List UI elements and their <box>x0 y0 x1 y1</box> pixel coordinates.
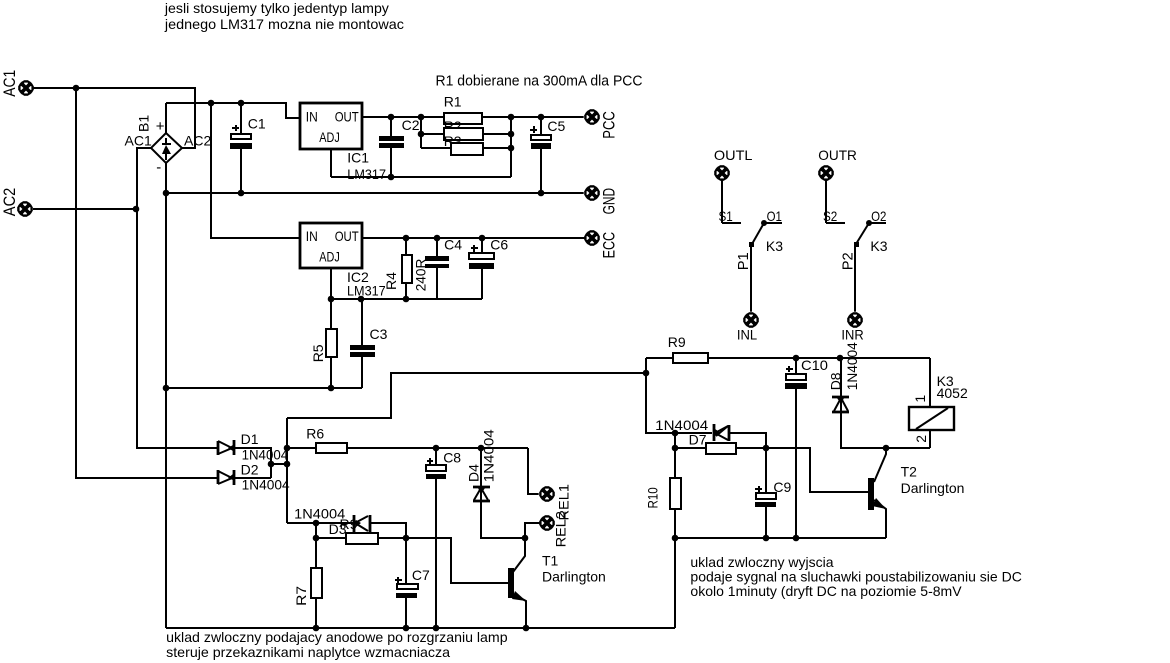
node D7 left <box>672 430 679 437</box>
node C8 top <box>433 445 440 452</box>
resistor R11 <box>675 443 766 454</box>
svg-text:INR: INR <box>841 326 863 342</box>
svg-text:1N4004: 1N4004 <box>481 429 497 482</box>
wire to T2 base <box>766 448 868 492</box>
node top rail IC2 branch <box>208 100 215 107</box>
terminal REL2 <box>539 515 556 532</box>
svg-text:PCC: PCC <box>600 111 618 139</box>
node rail at T1 emitter <box>523 625 530 632</box>
svg-text:R1: R1 <box>444 94 462 110</box>
svg-text:1: 1 <box>912 395 928 403</box>
svg-text:240R: 240R <box>413 259 429 292</box>
svg-text:R9: R9 <box>668 334 686 350</box>
terminal AC1 <box>18 80 35 97</box>
op IC1 LM317 box <box>300 103 386 182</box>
diode D4 1N4004 vertical <box>465 429 525 538</box>
svg-text:B1: B1 <box>135 115 151 132</box>
node minus line at R5 wire <box>163 385 170 392</box>
svg-text:AC2: AC2 <box>1 188 19 217</box>
node AC1 junction <box>73 85 80 92</box>
resistor R10 <box>645 448 682 538</box>
terminal INL <box>743 312 760 329</box>
svg-text:S2: S2 <box>823 208 837 224</box>
wire AC1 down to D2 <box>76 88 218 478</box>
transistor T1 Darlington <box>508 538 606 628</box>
wire IC1 ADJ rail <box>331 149 511 177</box>
resistor R3 <box>421 117 514 177</box>
svg-text:C8: C8 <box>443 449 461 465</box>
node D8 top <box>837 355 844 362</box>
svg-text:O2: O2 <box>871 208 886 224</box>
terminal ECC <box>584 230 601 247</box>
wire bridge left corner down to D1 <box>137 148 218 448</box>
svg-text:ADJ: ADJ <box>319 129 340 145</box>
svg-text:1N4004: 1N4004 <box>242 477 290 493</box>
node ADJ2 left <box>328 296 335 303</box>
svg-text:4052: 4052 <box>937 385 968 401</box>
terminal OUTR <box>818 165 835 182</box>
node T1 collector junction <box>522 535 529 542</box>
svg-text:steruje przekaznikami naplytce: steruje przekaznikami naplytce wzmacniac… <box>166 644 450 660</box>
svg-text:K3: K3 <box>766 238 783 254</box>
svg-text:INL: INL <box>737 326 757 342</box>
wire rail link up to delay2 rail <box>674 538 676 628</box>
svg-text:OUTR: OUTR <box>818 147 857 163</box>
node OUT at C2 <box>388 114 395 121</box>
wire GND rail <box>166 192 585 194</box>
terminal GND <box>584 185 601 202</box>
node delay2 feed <box>643 370 650 377</box>
svg-text:C2: C2 <box>402 117 420 133</box>
node rail2 at C10 <box>793 535 800 542</box>
node C10 top <box>793 355 800 362</box>
wire to T1 base <box>406 538 508 583</box>
node OUT2 at C4 <box>434 235 441 242</box>
wire bottom rail left circuit <box>166 627 675 629</box>
node rail at C7 <box>403 625 410 632</box>
stray glyph stroke <box>716 426 728 436</box>
node ADJ2 at R4 <box>403 296 410 303</box>
node R8 row left <box>313 535 320 542</box>
wire AC2 <box>33 208 136 210</box>
node diode join left <box>268 461 275 468</box>
node R11 right <box>763 445 770 452</box>
bridge rectifier B1 <box>125 115 212 176</box>
svg-text:AC2: AC2 <box>184 132 211 148</box>
node rail at R7 <box>313 625 320 632</box>
wire to REL1 <box>528 448 540 494</box>
resistor R9 <box>646 334 930 363</box>
svg-text:jednego LM317 mozna nie montow: jednego LM317 mozna nie montowac <box>164 16 404 32</box>
switch arm K3 left <box>752 223 764 244</box>
wire R8 row vertical link <box>315 523 317 538</box>
node R5 bottom <box>328 385 335 392</box>
resistor R1 <box>444 94 482 124</box>
capacitor C2 <box>379 117 420 180</box>
wire arm to INL <box>750 247 752 313</box>
diode D7 <box>714 424 729 441</box>
relay K3 4052 <box>909 358 968 448</box>
svg-text:R4: R4 <box>383 272 399 290</box>
terminal REL1 <box>539 486 556 503</box>
node D4 top <box>478 445 485 452</box>
svg-text:AC1: AC1 <box>1 70 19 97</box>
svg-text:R7: R7 <box>293 586 309 606</box>
node ADJ2 at C3 <box>358 296 365 303</box>
wire bridge plus to top rail and IC1 IN <box>166 103 300 133</box>
svg-text:D3: D3 <box>329 521 347 537</box>
svg-text:-: - <box>156 159 161 176</box>
svg-text:S1: S1 <box>719 208 733 224</box>
wire D1 D2 outputs join <box>234 448 287 478</box>
svg-text:Darlington: Darlington <box>542 568 606 584</box>
node GND rail at minus line <box>163 190 170 197</box>
svg-text:OUT: OUT <box>335 228 359 244</box>
terminal PCC <box>584 109 601 126</box>
wire OUTL down <box>722 180 741 223</box>
svg-text:IN: IN <box>306 228 318 244</box>
svg-text:jesli stosujemy tylko jedentyp: jesli stosujemy tylko jedentyp lampy <box>164 0 389 16</box>
resistor R8 <box>316 533 406 544</box>
wire bottom rail delay2 <box>675 537 886 539</box>
wire IC2 OUT row to ECC <box>362 237 585 239</box>
capacitor C7 <box>395 538 430 628</box>
svg-text:R6: R6 <box>306 425 324 441</box>
wire OUTR down <box>826 180 845 223</box>
svg-text:1N4004: 1N4004 <box>294 505 345 521</box>
wire main left vertical <box>286 418 288 523</box>
svg-text:LM317: LM317 <box>347 166 386 182</box>
svg-text:IN: IN <box>306 108 318 124</box>
svg-text:C1: C1 <box>248 115 266 131</box>
svg-text:+: + <box>156 118 165 135</box>
svg-text:LM317: LM317 <box>347 282 386 298</box>
node OUT at R bank left <box>418 114 425 121</box>
wire bridge minus down left side <box>165 163 167 628</box>
node diode join right <box>284 461 291 468</box>
svg-text:K3: K3 <box>870 238 887 254</box>
wire IC1 OUT row <box>362 116 585 118</box>
terminal OUTL <box>714 165 731 182</box>
node AC2 junction <box>133 206 140 213</box>
resistor R4 240R <box>383 238 428 299</box>
diode D2 1N4004 <box>218 461 290 492</box>
node OUT2 at R4 <box>403 235 410 242</box>
node OUT2 at C6 <box>479 235 486 242</box>
svg-text:T2: T2 <box>901 463 918 479</box>
node OUT at R bank right <box>508 114 515 121</box>
svg-text:AC1: AC1 <box>125 132 152 148</box>
switch arm K3 right <box>856 223 869 244</box>
svg-text:P1: P1 <box>735 252 752 270</box>
capacitor C6 <box>469 236 508 299</box>
node rail2 at R10 <box>672 535 679 542</box>
node top rail C1 branch <box>238 100 245 107</box>
capacitor C4 <box>425 236 462 299</box>
wire IC2 ADJ rail <box>330 268 482 299</box>
svg-text:REL2: REL2 <box>553 511 569 547</box>
diode D3 <box>354 515 370 533</box>
svg-text:Darlington: Darlington <box>901 480 965 496</box>
svg-text:D1: D1 <box>241 431 259 447</box>
node R8 row right <box>403 535 410 542</box>
capacitor C5 <box>530 117 566 196</box>
node OUT at C5 <box>538 114 545 121</box>
node T2 collector junction <box>883 445 890 452</box>
svg-text:ECC: ECC <box>600 232 618 259</box>
node rail2 at C9 <box>763 535 770 542</box>
svg-text:1N4004: 1N4004 <box>844 342 860 390</box>
svg-text:GND: GND <box>600 188 618 215</box>
svg-text:R5: R5 <box>310 344 326 362</box>
wire D3 row <box>287 523 406 538</box>
capacitor C3 <box>350 299 388 388</box>
node D3 row left <box>313 520 320 527</box>
svg-text:uklad zwloczny podajacy anodow: uklad zwloczny podajacy anodowe po rozgr… <box>166 629 508 645</box>
node R11 left <box>672 445 679 452</box>
resistor R2 <box>418 117 515 148</box>
svg-text:C10: C10 <box>801 357 828 373</box>
node rail at C8 <box>433 625 440 632</box>
svg-text:OUTL: OUTL <box>714 147 753 163</box>
wire R5 C3 bottom to minus line <box>166 387 362 389</box>
resistor R6 <box>287 425 528 453</box>
wire to REL2 <box>525 523 540 538</box>
svg-text:C4: C4 <box>444 236 462 252</box>
svg-text:okolo 1minuty (dryft DC na poz: okolo 1minuty (dryft DC na poziomie 5-8m… <box>690 583 962 599</box>
diode D1 1N4004 <box>218 431 288 462</box>
svg-text:D4: D4 <box>465 464 481 482</box>
svg-text:T1: T1 <box>542 552 559 568</box>
svg-text:O1: O1 <box>767 208 782 224</box>
diode D8 1N4004 vertical <box>828 342 930 448</box>
switch contact O2 <box>869 222 886 224</box>
svg-text:IC1: IC1 <box>347 149 369 165</box>
svg-text:C5: C5 <box>547 118 565 134</box>
terminal AC2 <box>17 201 34 218</box>
wire D7 row <box>675 433 766 448</box>
wire arm to INR <box>854 247 856 313</box>
terminal INR <box>847 312 864 329</box>
wire jog up to delay2 feed <box>287 373 646 418</box>
svg-text:D2: D2 <box>241 461 259 477</box>
svg-text:C6: C6 <box>490 236 508 252</box>
svg-text:R1 dobierane na 300mA dla PCC: R1 dobierane na 300mA dla PCC <box>436 72 643 89</box>
resistor R7 <box>293 538 322 628</box>
svg-text:ADJ: ADJ <box>319 248 340 264</box>
op IC2 LM317 box <box>300 223 386 298</box>
capacitor C9 <box>755 448 792 538</box>
svg-text:C3: C3 <box>370 326 388 342</box>
transistor T2 Darlington <box>868 448 964 538</box>
capacitor C10 <box>785 357 828 538</box>
svg-text:C7: C7 <box>412 567 430 583</box>
node R6 tap <box>284 445 291 452</box>
node C1 at GND rail <box>238 190 245 197</box>
svg-text:2: 2 <box>913 435 929 443</box>
switch contact O1 <box>764 222 782 224</box>
capacitor C1 <box>230 103 266 193</box>
resistor R5 <box>310 299 337 388</box>
wire link verticals D7 R11 <box>674 433 676 448</box>
capacitor C8 <box>426 448 461 628</box>
wire AC1 to bridge <box>33 88 195 148</box>
wire R9 left leg down <box>646 358 675 433</box>
svg-text:OUT: OUT <box>335 108 359 124</box>
wire branch to IC2 IN <box>211 103 300 238</box>
svg-text:R10: R10 <box>645 487 661 508</box>
